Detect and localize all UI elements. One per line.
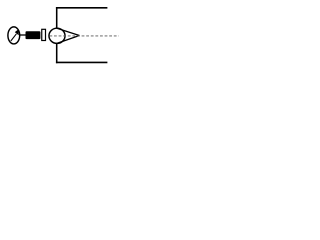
background <box>0 0 119 70</box>
generator needle line <box>11 34 17 41</box>
baffle wall top horizontal <box>56 7 107 9</box>
baffle wall lower vertical <box>56 43 58 63</box>
dashed axis line <box>49 35 118 37</box>
loudspeaker dome (circle) <box>49 28 65 43</box>
baffle wall upper vertical <box>56 7 58 28</box>
generator G1 (circle with needle arrow) <box>8 27 20 44</box>
cone apex tip <box>77 34 80 36</box>
baffle wall bottom horizontal <box>56 61 107 63</box>
wire generator to bar <box>19 34 26 36</box>
coupling rectangle <box>42 29 46 40</box>
thick black bar (driver block) <box>26 31 41 39</box>
generator needle arrowhead <box>15 29 19 35</box>
speaker cone upper edge <box>57 28 80 35</box>
speaker cone lower edge <box>57 35 80 43</box>
